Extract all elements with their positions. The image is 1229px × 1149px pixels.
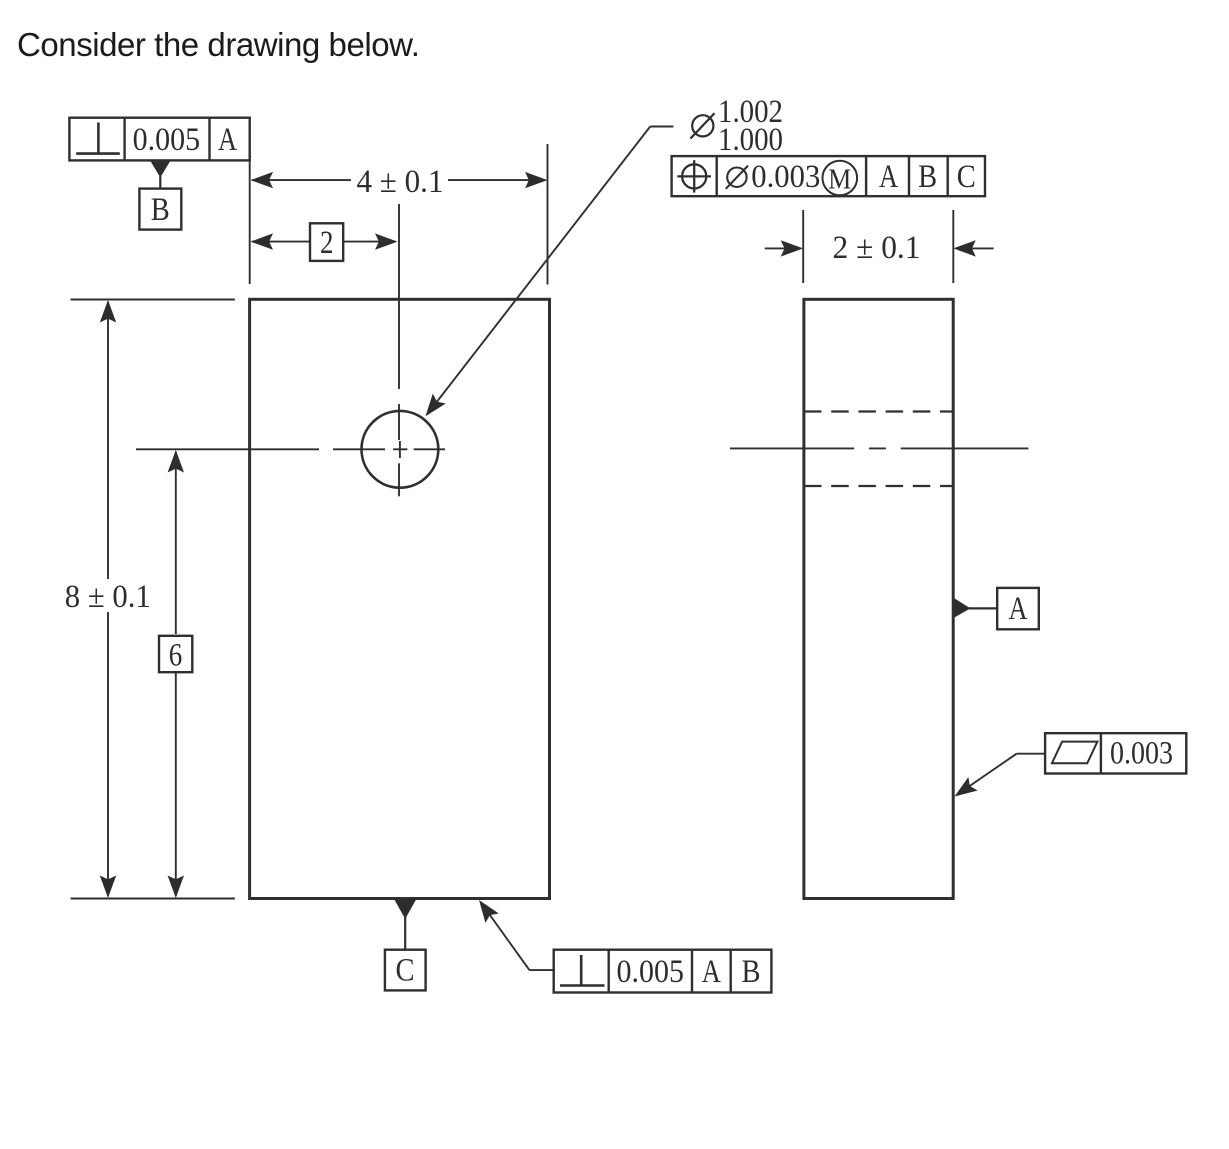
- 2 +/- 0.1 extension lines (side view): [803, 210, 953, 283]
- arrow 2dim right: [375, 233, 398, 249]
- title text: [17, 26, 419, 64]
- bottom FCF leader: [482, 904, 554, 970]
- svg-text:0.003: 0.003: [1110, 736, 1173, 772]
- 2 +/- 0.1 dimension arrows leaders: [765, 247, 994, 249]
- 2 basic dimension line: [252, 241, 396, 243]
- datum C triangle: [394, 899, 416, 919]
- 8 +/- 0.1 bottom extension line: [71, 898, 235, 900]
- 4 +/- 0.1 dimension line: [252, 179, 545, 181]
- arrow 4dim left: [251, 172, 274, 188]
- bottom FCF frame (perpendicularity 0.005 A B): [554, 950, 772, 993]
- arrow 6dim bottom: [168, 876, 184, 899]
- svg-text:B: B: [742, 954, 761, 990]
- svg-text:M: M: [828, 164, 851, 196]
- 8 +/- 0.1 top extension line: [71, 299, 235, 301]
- 4 +/- 0.1 dimension right extension line: [547, 144, 549, 285]
- position symbol: [677, 160, 711, 192]
- svg-text:4 ± 0.1: 4 ± 0.1: [357, 164, 444, 200]
- svg-text:2 ± 0.1: 2 ± 0.1: [833, 230, 921, 266]
- arrow hole leader: [419, 393, 446, 421]
- arrow 8dim bottom: [100, 876, 116, 899]
- svg-text:B: B: [918, 159, 937, 195]
- arrow 6dim top: [168, 450, 184, 473]
- flatness symbol parallelogram: [1052, 742, 1098, 764]
- datum A box: [997, 588, 1039, 629]
- arrow 2dim left: [251, 233, 274, 249]
- top FCF frame (perpendicularity 0.005 A): [69, 118, 249, 161]
- M modifier circle: [823, 161, 858, 196]
- perpendicularity symbol (top FCF): [76, 123, 120, 154]
- datum A leader: [968, 607, 997, 609]
- svg-text:0.003: 0.003: [751, 159, 820, 195]
- hole vertical center line: [398, 204, 401, 496]
- flatness leader: [958, 754, 1045, 794]
- svg-text:A: A: [702, 954, 721, 990]
- position FCF frame: [672, 156, 985, 196]
- svg-text:0.005: 0.005: [617, 954, 685, 990]
- 6 basic dimension box: [159, 636, 192, 672]
- hidden line lower: [804, 485, 953, 487]
- svg-text:A: A: [1009, 591, 1028, 627]
- svg-text:A: A: [218, 122, 237, 158]
- svg-text:0.005: 0.005: [133, 122, 201, 158]
- 8 +/- 0.1 dimension line: [107, 302, 109, 896]
- svg-text:8 ± 0.1: 8 ± 0.1: [65, 579, 151, 615]
- arrow side dim left: [781, 240, 804, 256]
- svg-text:1.000: 1.000: [718, 122, 783, 158]
- arrow flatness leader: [950, 777, 978, 803]
- diameter symbol for 1.002/1.000: [690, 113, 714, 138]
- datum B stem: [159, 176, 161, 189]
- 6 dimension line: [175, 452, 177, 896]
- hole leader line: [427, 127, 673, 415]
- side view center line: [730, 447, 1028, 449]
- 2 basic dimension box: [310, 223, 343, 261]
- arrow side dim right: [953, 240, 976, 256]
- datum B box: [139, 189, 181, 230]
- svg-text:C: C: [957, 159, 976, 195]
- svg-text:A: A: [879, 159, 898, 195]
- perpendicularity symbol (bottom FCF): [560, 955, 605, 986]
- datum B triangle: [150, 160, 171, 177]
- 4 +/- 0.1 dimension left extension line: [249, 160, 251, 284]
- diameter symbol in position FCF: [726, 166, 748, 189]
- datum C box: [385, 950, 426, 991]
- svg-text:6: 6: [169, 638, 183, 674]
- hole circle: [362, 411, 439, 488]
- svg-text:2: 2: [320, 225, 334, 261]
- datum A triangle: [953, 598, 970, 619]
- side view outline: [804, 299, 953, 898]
- front view outline: [250, 299, 550, 898]
- hole horizontal center line: [136, 448, 445, 450]
- datum C stem: [404, 917, 406, 950]
- hidden line upper: [804, 410, 953, 412]
- flatness FCF frame: [1045, 733, 1186, 773]
- arrow 4dim right: [525, 172, 548, 188]
- arrow bottom FCF leader: [472, 895, 498, 923]
- arrow 8dim top: [100, 300, 116, 323]
- svg-text:C: C: [396, 953, 415, 989]
- svg-text:B: B: [151, 192, 170, 228]
